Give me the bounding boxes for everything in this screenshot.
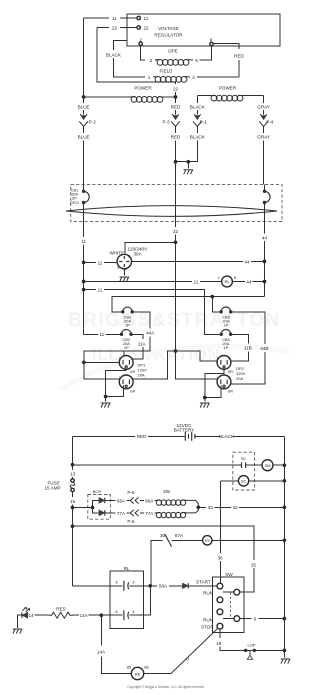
svg-text:15: 15 bbox=[70, 499, 76, 504]
svg-text:0: 0 bbox=[186, 657, 189, 662]
svg-text:33: 33 bbox=[208, 505, 214, 510]
node: power 22 junction bbox=[174, 95, 178, 99]
svg-text:11B: 11B bbox=[244, 346, 252, 351]
node bus 0 bbox=[283, 617, 287, 621]
svg-text:30A: 30A bbox=[134, 251, 143, 256]
node DP1 ground bbox=[104, 395, 108, 399]
node bus 33 bbox=[283, 505, 287, 509]
svg-text:BLUE: BLUE bbox=[78, 105, 90, 110]
ground bbox=[101, 403, 111, 408]
wire battery row BLACK bbox=[195, 435, 285, 437]
wire 22 to DP2 top bbox=[176, 351, 218, 361]
RED wire / column to GFCI bbox=[175, 97, 177, 162]
svg-text:GR: GR bbox=[130, 370, 136, 374]
receptacle ground stub bbox=[123, 269, 125, 276]
svg-text:22: 22 bbox=[173, 87, 179, 92]
ground bbox=[281, 659, 291, 664]
svg-text:RL: RL bbox=[124, 566, 130, 571]
node ground tap bbox=[186, 160, 190, 164]
svg-text:20A: 20A bbox=[138, 373, 145, 378]
diode BCR top bbox=[99, 498, 105, 504]
svg-text:4: 4 bbox=[192, 75, 195, 80]
svg-text:P-5: P-5 bbox=[127, 490, 135, 495]
svg-text:POWER: POWER bbox=[134, 86, 152, 91]
wire 22 to receptacle top bbox=[125, 242, 176, 254]
svg-text:RES: RES bbox=[56, 606, 65, 611]
starter contactor dashed box bbox=[233, 452, 255, 490]
node bus 262 bbox=[82, 261, 86, 265]
svg-text:13: 13 bbox=[70, 471, 76, 476]
svg-text:11: 11 bbox=[194, 279, 199, 284]
svg-text:2: 2 bbox=[131, 357, 133, 361]
wire 77A row bbox=[105, 512, 156, 514]
svg-text:14: 14 bbox=[28, 613, 34, 618]
wire 22 route down and over to power winding bbox=[97, 28, 176, 98]
wire into RL contact 6 bbox=[101, 614, 122, 616]
wire 11 to regulator bbox=[84, 17, 138, 19]
connector P-4 bbox=[259, 114, 268, 126]
svg-text:BLACK: BLACK bbox=[190, 105, 206, 110]
wire 22 through box bbox=[175, 184, 177, 351]
svg-text:P-2: P-2 bbox=[89, 119, 97, 124]
svg-text:DPE: DPE bbox=[168, 49, 177, 54]
svg-text:RED: RED bbox=[234, 54, 244, 59]
wire 11 feed right branch bbox=[84, 290, 219, 335]
BLACK wire from regulator to field bbox=[113, 40, 145, 77]
wire bus to RL contact 5 bbox=[73, 585, 123, 587]
LED indicator bbox=[13, 629, 23, 634]
svg-text:2: 2 bbox=[150, 58, 153, 63]
svg-text:77A: 77A bbox=[145, 511, 154, 516]
charge winding 3W bottom bbox=[156, 512, 186, 517]
svg-text:56A: 56A bbox=[159, 584, 168, 589]
relay RL box bbox=[110, 571, 143, 629]
node 14A bbox=[99, 613, 103, 617]
connector P-2 bbox=[79, 114, 88, 126]
svg-text:77A: 77A bbox=[117, 511, 126, 516]
node RL out bbox=[148, 584, 152, 588]
ground bbox=[184, 170, 194, 175]
svg-text:BLACK: BLACK bbox=[190, 135, 206, 140]
wire 44 feed row bbox=[112, 297, 265, 312]
svg-text:85: 85 bbox=[127, 664, 132, 669]
svg-text:3W: 3W bbox=[163, 489, 171, 494]
svg-text:VOLTAGE: VOLTAGE bbox=[158, 26, 179, 31]
svg-text:BLUE: BLUE bbox=[78, 135, 90, 140]
wire 44 from lamp to bus bbox=[232, 281, 264, 283]
svg-text:1: 1 bbox=[148, 75, 151, 80]
svg-text:2: 2 bbox=[228, 376, 230, 380]
left battery bus bbox=[72, 436, 74, 586]
wire to stop lever bbox=[144, 673, 171, 675]
breaker CB1 left pole bbox=[82, 190, 85, 193]
wire 14 bbox=[28, 614, 49, 616]
svg-text:STOP: STOP bbox=[201, 625, 213, 630]
duplex receptacle DP2 outlet 1 bbox=[216, 356, 233, 374]
wire 18 bbox=[220, 629, 244, 650]
svg-text:POWER: POWER bbox=[219, 86, 237, 91]
node bus 44 row bbox=[263, 260, 267, 264]
wire DP1 lower to 22 bbox=[133, 351, 175, 379]
SW terminal mid2 bbox=[217, 609, 223, 615]
svg-text:GRAY: GRAY bbox=[257, 105, 270, 110]
wire to ground bbox=[204, 398, 206, 402]
SW terminal right bottom bbox=[234, 616, 240, 622]
svg-text:RUN: RUN bbox=[203, 591, 213, 596]
wire CB3 out 44A bbox=[84, 312, 150, 363]
svg-text:11: 11 bbox=[81, 239, 86, 244]
svg-text:RL: RL bbox=[224, 279, 230, 284]
BLACK wire / P-1 column bbox=[188, 96, 197, 162]
svg-text:P-1: P-1 bbox=[200, 119, 208, 124]
svg-text:14A: 14A bbox=[97, 649, 106, 654]
svg-text:11: 11 bbox=[98, 288, 103, 293]
diode start bbox=[183, 583, 189, 588]
svg-text:1P: 1P bbox=[125, 322, 130, 327]
SC contact bbox=[242, 462, 246, 468]
svg-text:2: 2 bbox=[131, 376, 133, 380]
svg-text:14A: 14A bbox=[80, 613, 89, 618]
SW mechanical link bbox=[230, 592, 232, 618]
wire pin2 to DPE bbox=[141, 45, 145, 60]
svg-text:FIELD: FIELD bbox=[159, 69, 173, 74]
wire SC coil row bbox=[220, 480, 238, 482]
ground bbox=[120, 277, 130, 282]
svg-text:REGULATOR: REGULATOR bbox=[154, 33, 183, 38]
svg-text:44A: 44A bbox=[146, 331, 155, 336]
svg-text:18: 18 bbox=[216, 641, 222, 646]
svg-text:GR: GR bbox=[122, 268, 128, 272]
breaker CB3 bbox=[121, 310, 124, 313]
wire 33 row bbox=[198, 506, 284, 508]
wire 11 row to panel lamp bbox=[84, 281, 222, 283]
svg-text:P-6: P-6 bbox=[127, 519, 135, 524]
svg-text:44: 44 bbox=[246, 279, 252, 284]
node DP1 left bbox=[82, 360, 86, 364]
BLUE wire / left bus down bbox=[83, 18, 85, 184]
wire 22 down to DP2 lower bbox=[176, 351, 218, 379]
node bus SM bbox=[283, 463, 287, 467]
wire relay contact feed bbox=[151, 540, 163, 586]
svg-text:BCR: BCR bbox=[93, 489, 102, 494]
svg-text:11: 11 bbox=[144, 16, 149, 21]
connector P-6 bbox=[130, 510, 138, 516]
svg-text:LOP: LOP bbox=[247, 642, 255, 647]
svg-text:36: 36 bbox=[217, 555, 223, 560]
svg-text:22: 22 bbox=[144, 26, 150, 31]
node 33 join bbox=[196, 505, 200, 509]
wire row to starter contact bbox=[73, 464, 242, 466]
svg-text:1P: 1P bbox=[223, 322, 228, 327]
svg-text:6: 6 bbox=[210, 38, 213, 43]
svg-text:6: 6 bbox=[195, 58, 198, 63]
node bus FS bbox=[283, 538, 287, 542]
connector P-1 bbox=[193, 114, 202, 126]
svg-text:SC: SC bbox=[241, 456, 247, 461]
node bus-526 bbox=[71, 524, 75, 528]
svg-text:WHITE: WHITE bbox=[110, 250, 125, 255]
wire pin6 right, RED drop to field bbox=[213, 44, 239, 77]
diode BCR bottom bbox=[99, 510, 105, 516]
svg-text:11: 11 bbox=[99, 332, 104, 337]
wire 44 row from receptacle bbox=[132, 260, 265, 262]
svg-text:SM: SM bbox=[265, 463, 271, 468]
wire CB2 out 11A bbox=[131, 334, 143, 359]
wire left bus through box bbox=[83, 184, 85, 334]
node 22 top bbox=[174, 240, 178, 244]
wire CB5 out 44B bbox=[231, 312, 265, 384]
ground bbox=[200, 403, 210, 408]
terminal 11 bbox=[137, 16, 140, 19]
breaker CB5 bbox=[219, 310, 222, 313]
svg-text:RED: RED bbox=[137, 434, 147, 439]
duplex receptacle DP2 outlet 2 bbox=[216, 375, 233, 393]
svg-text:44: 44 bbox=[244, 259, 250, 264]
relay coil RE bbox=[131, 667, 143, 679]
svg-text:44B: 44B bbox=[260, 346, 268, 351]
wire top row to DP1 bbox=[123, 351, 125, 355]
svg-text:RUN: RUN bbox=[203, 618, 213, 623]
wire 66A row bbox=[105, 499, 156, 501]
svg-text:44: 44 bbox=[262, 236, 268, 241]
wire to ground bbox=[105, 397, 107, 402]
svg-text:15 AMP: 15 AMP bbox=[45, 486, 61, 491]
svg-text:33: 33 bbox=[232, 505, 238, 510]
SW terminal mid1 bbox=[217, 597, 223, 603]
svg-text:1: 1 bbox=[216, 376, 218, 380]
svg-text:20A: 20A bbox=[236, 376, 243, 381]
svg-text:RED: RED bbox=[171, 105, 181, 110]
duplex receptacle DP1 outlet 1 bbox=[119, 356, 136, 374]
watermark bbox=[60, 310, 290, 390]
connector P-3 bbox=[171, 114, 180, 126]
wire DP1 grounds bbox=[106, 369, 127, 396]
wire 11 row to receptacle bbox=[84, 261, 117, 263]
svg-text:87A: 87A bbox=[175, 533, 184, 538]
wire to CB5 bbox=[212, 297, 220, 312]
svg-text:30: 30 bbox=[160, 533, 166, 538]
switch SW box bbox=[213, 577, 244, 633]
ground tap wire bbox=[187, 162, 189, 169]
node bus 289 bbox=[82, 288, 86, 292]
fuse FU 15 AMP bbox=[71, 479, 74, 482]
svg-text:SW: SW bbox=[225, 572, 233, 577]
fuel solenoid FS bbox=[203, 536, 212, 545]
svg-text:START: START bbox=[196, 580, 211, 585]
GFCI breaker dashed enclosure bbox=[71, 184, 282, 221]
svg-text:FS: FS bbox=[205, 538, 210, 543]
svg-text:22: 22 bbox=[112, 26, 118, 31]
svg-text:1: 1 bbox=[216, 357, 218, 361]
SW terminal START bbox=[217, 583, 223, 589]
svg-text:RED: RED bbox=[171, 135, 181, 140]
svg-text:66A: 66A bbox=[117, 498, 126, 503]
svg-text:RE: RE bbox=[135, 671, 141, 676]
svg-text:P-3: P-3 bbox=[163, 119, 171, 124]
svg-text:GR: GR bbox=[130, 389, 136, 393]
svg-text:2: 2 bbox=[139, 38, 142, 43]
wire 11 row to CB2 bbox=[84, 333, 122, 335]
node DP2 ground bbox=[203, 396, 207, 400]
duplex receptacle DP1 outlet 2 bbox=[119, 375, 136, 393]
wire battery row RED bbox=[73, 435, 186, 437]
wire CB4 out 11B bbox=[231, 334, 249, 361]
battery charge rectifier BCR bbox=[88, 495, 111, 520]
svg-text:11A: 11A bbox=[138, 341, 147, 346]
svg-text:1: 1 bbox=[119, 376, 121, 380]
wire 0 row bbox=[223, 618, 285, 620]
pin 6 bbox=[210, 42, 213, 45]
right battery bus bbox=[283, 436, 285, 657]
panel lamp RL bbox=[222, 276, 233, 287]
svg-text:11: 11 bbox=[112, 16, 117, 21]
breaker CB2 bbox=[120, 333, 123, 336]
svg-text:GR: GR bbox=[228, 370, 234, 374]
connector P-5 bbox=[130, 497, 138, 503]
svg-text:1P: 1P bbox=[124, 345, 129, 350]
svg-text:GFCI: GFCI bbox=[70, 200, 80, 205]
wire 14A down bbox=[101, 615, 131, 673]
svg-text:66A: 66A bbox=[145, 498, 154, 503]
GRAY wire / P-4 column bbox=[263, 96, 265, 185]
node BCR input bbox=[91, 506, 95, 510]
pin 2 bbox=[139, 42, 142, 45]
node 22 mid bbox=[174, 349, 178, 353]
node 44 feed right top breaker bbox=[210, 295, 214, 299]
wire DP2 grounds bbox=[205, 369, 224, 397]
wire 14A bbox=[73, 614, 101, 616]
wire right bus through box bbox=[264, 184, 266, 296]
starter motor SM bbox=[262, 460, 273, 471]
node bus-507 bbox=[71, 506, 75, 510]
svg-text:GR: GR bbox=[228, 389, 234, 393]
svg-text:BLACK: BLACK bbox=[106, 53, 122, 58]
starter contactor coil SC bbox=[238, 476, 248, 486]
svg-text:22: 22 bbox=[173, 229, 179, 234]
RED wire into GFCI bbox=[175, 162, 177, 185]
SW terminal STOP bbox=[217, 623, 223, 629]
svg-text:2: 2 bbox=[228, 357, 230, 361]
svg-text:15: 15 bbox=[251, 562, 257, 567]
wire 22 to regulator bbox=[97, 27, 137, 29]
wire 36 vertical bbox=[219, 481, 221, 583]
node bus LOP bbox=[283, 649, 287, 653]
svg-text:Copyright © Briggs & Stratton,: Copyright © Briggs & Stratton, LLC. All … bbox=[127, 685, 205, 689]
node bus SC bbox=[283, 479, 287, 483]
wire RUN row bbox=[223, 591, 234, 593]
voltage regulator VR box bbox=[127, 14, 280, 46]
node bus lamp bbox=[263, 280, 267, 284]
svg-text:1: 1 bbox=[119, 357, 121, 361]
svg-text:86: 86 bbox=[144, 664, 149, 669]
svg-text:11: 11 bbox=[98, 260, 103, 265]
wire 15 run feed bbox=[73, 526, 254, 592]
svg-text:1P: 1P bbox=[223, 345, 228, 350]
SW terminal RUN right top bbox=[234, 589, 240, 595]
stator oval bbox=[66, 206, 277, 217]
svg-text:SC: SC bbox=[241, 479, 247, 484]
breaker CB4 bbox=[219, 333, 222, 336]
node: power left junction bbox=[82, 95, 86, 99]
node bus-464 bbox=[71, 463, 75, 467]
breaker CB1 right pole bbox=[263, 190, 266, 193]
node red-neutral bbox=[174, 160, 178, 164]
wire bus2 to DP1 pins bbox=[84, 362, 120, 379]
svg-text:P-4: P-4 bbox=[266, 119, 274, 124]
terminal 22 bbox=[137, 26, 140, 29]
svg-text:BATTERY: BATTERY bbox=[174, 428, 195, 433]
neutral tie wire bbox=[176, 161, 189, 163]
svg-text:GRAY: GRAY bbox=[257, 135, 270, 140]
receptacle 120/240V 30A bbox=[117, 254, 132, 272]
svg-text:BLACK: BLACK bbox=[219, 434, 235, 439]
svg-text:0: 0 bbox=[254, 617, 257, 622]
node bus 281 bbox=[82, 280, 86, 284]
